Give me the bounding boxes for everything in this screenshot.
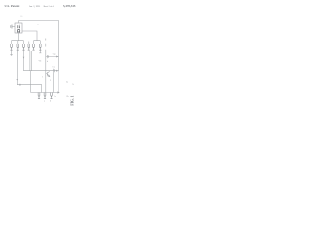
svg-text:Cs: Cs — [53, 67, 55, 69]
svg-text:a: a — [44, 100, 45, 102]
svg-text:2: 2 — [50, 80, 51, 82]
svg-text:2a: 2a — [66, 82, 68, 84]
svg-text:%: % — [72, 84, 74, 86]
svg-text:Jan. 3, 1995: Jan. 3, 1995 — [29, 6, 41, 8]
svg-text:1: 1 — [42, 77, 43, 79]
svg-text:5,478,345: 5,478,345 — [63, 4, 76, 8]
svg-text:Sheet 2 of 4: Sheet 2 of 4 — [44, 5, 54, 8]
svg-text:a: a — [38, 24, 39, 26]
svg-text:U.S. Patent: U.S. Patent — [5, 4, 21, 8]
svg-text:FIG. 1: FIG. 1 — [70, 95, 74, 105]
svg-text:10: 10 — [20, 16, 22, 18]
